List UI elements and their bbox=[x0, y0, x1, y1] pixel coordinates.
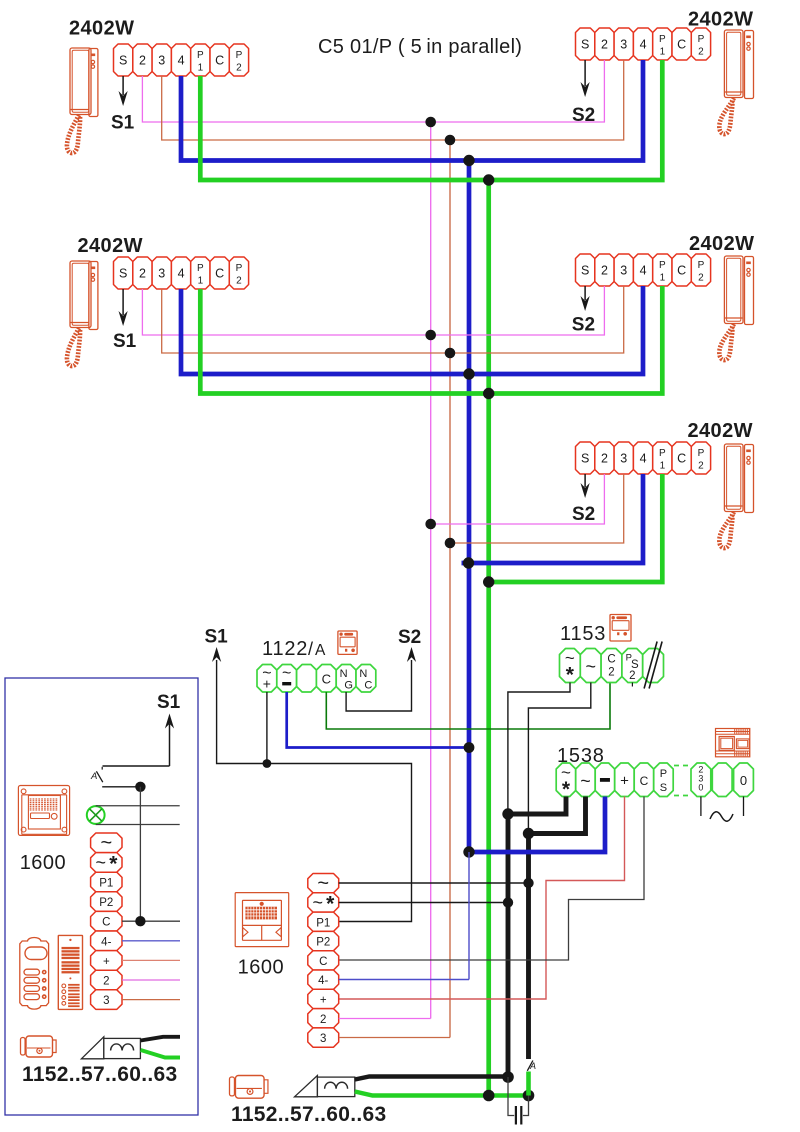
svg-text:~: ~ bbox=[580, 771, 591, 791]
svg-text:~: ~ bbox=[317, 872, 329, 894]
svg-text:2: 2 bbox=[139, 267, 146, 281]
svg-text:~: ~ bbox=[100, 832, 112, 854]
svg-text:P1: P1 bbox=[99, 878, 113, 890]
svg-text:S: S bbox=[119, 267, 127, 281]
svg-text:N: N bbox=[359, 668, 367, 680]
svg-text:G: G bbox=[344, 680, 353, 692]
svg-text:2: 2 bbox=[236, 276, 242, 287]
svg-text:4-: 4- bbox=[318, 975, 328, 987]
svg-text:3: 3 bbox=[620, 264, 627, 278]
svg-text:2402W: 2402W bbox=[78, 235, 143, 257]
svg-text:1: 1 bbox=[660, 461, 666, 472]
svg-text:S: S bbox=[119, 54, 127, 68]
svg-text:C: C bbox=[102, 917, 110, 929]
svg-text:C: C bbox=[677, 264, 686, 278]
svg-text:P: P bbox=[197, 263, 204, 274]
svg-text:P: P bbox=[698, 448, 705, 459]
svg-text:P: P bbox=[659, 34, 666, 45]
svg-text:4-: 4- bbox=[101, 936, 111, 948]
svg-text:4: 4 bbox=[178, 267, 185, 281]
svg-text:1152..57..60..63: 1152..57..60..63 bbox=[22, 1063, 177, 1086]
svg-text:S1: S1 bbox=[205, 627, 229, 648]
svg-text:+: + bbox=[620, 773, 629, 790]
svg-text:+: + bbox=[263, 676, 271, 692]
svg-text:S1: S1 bbox=[113, 331, 137, 352]
svg-text:4: 4 bbox=[640, 264, 647, 278]
svg-text:S: S bbox=[581, 264, 589, 278]
svg-text:P: P bbox=[236, 263, 243, 274]
svg-text:S: S bbox=[660, 782, 667, 794]
svg-text:1600: 1600 bbox=[20, 852, 66, 874]
svg-text:N: N bbox=[340, 668, 348, 680]
svg-text:~: ~ bbox=[96, 852, 107, 872]
svg-text:P1: P1 bbox=[316, 917, 330, 929]
svg-text:C: C bbox=[640, 774, 649, 788]
svg-text:/: / bbox=[308, 639, 313, 659]
svg-text:1: 1 bbox=[198, 63, 204, 74]
svg-text:+: + bbox=[320, 994, 327, 1006]
svg-text:P: P bbox=[659, 260, 666, 271]
svg-text:P: P bbox=[659, 448, 666, 459]
svg-text:2: 2 bbox=[698, 47, 704, 58]
svg-text:1: 1 bbox=[660, 273, 666, 284]
svg-text:2402W: 2402W bbox=[689, 233, 754, 255]
svg-text:~: ~ bbox=[312, 892, 323, 912]
svg-text:C: C bbox=[215, 267, 224, 281]
svg-text:S2: S2 bbox=[572, 315, 595, 336]
svg-text:2: 2 bbox=[103, 976, 109, 988]
svg-text:A: A bbox=[315, 642, 326, 659]
svg-text:S2: S2 bbox=[398, 627, 421, 648]
svg-text:3: 3 bbox=[320, 1033, 326, 1045]
svg-text:C5 01/P ( 5 in parallel): C5 01/P ( 5 in parallel) bbox=[318, 36, 522, 58]
svg-text:C: C bbox=[677, 452, 686, 466]
svg-text:C: C bbox=[215, 54, 224, 68]
svg-text:~: ~ bbox=[282, 665, 291, 682]
svg-text:1: 1 bbox=[660, 47, 666, 58]
svg-text:1153: 1153 bbox=[560, 623, 606, 645]
svg-text:2: 2 bbox=[629, 670, 635, 682]
svg-text:C: C bbox=[607, 654, 615, 666]
svg-text:P: P bbox=[197, 50, 204, 61]
svg-text:2402W: 2402W bbox=[688, 9, 753, 31]
svg-text:4: 4 bbox=[640, 452, 647, 466]
svg-text:~: ~ bbox=[585, 657, 596, 677]
svg-text:1600: 1600 bbox=[238, 957, 285, 979]
svg-text:4: 4 bbox=[640, 38, 647, 52]
svg-text:A: A bbox=[90, 771, 97, 782]
svg-text:S1: S1 bbox=[157, 692, 181, 713]
svg-text:P2: P2 bbox=[316, 937, 330, 949]
svg-text:0: 0 bbox=[740, 773, 747, 788]
svg-text:C: C bbox=[677, 38, 686, 52]
svg-text:S: S bbox=[581, 38, 589, 52]
svg-text:2: 2 bbox=[320, 1014, 326, 1026]
svg-text:2: 2 bbox=[698, 273, 704, 284]
svg-text:2: 2 bbox=[601, 38, 608, 52]
svg-text:C: C bbox=[364, 680, 372, 692]
svg-text:2402W: 2402W bbox=[69, 18, 134, 40]
svg-text:2402W: 2402W bbox=[688, 420, 753, 442]
svg-text:3: 3 bbox=[158, 267, 165, 281]
svg-text:1: 1 bbox=[198, 276, 204, 287]
svg-text:S2: S2 bbox=[572, 105, 595, 126]
svg-text:+: + bbox=[103, 956, 110, 968]
svg-text:3: 3 bbox=[620, 452, 627, 466]
svg-text:C: C bbox=[319, 956, 327, 968]
svg-text:C: C bbox=[322, 672, 331, 687]
svg-text:P: P bbox=[698, 34, 705, 45]
svg-text:P2: P2 bbox=[99, 897, 113, 909]
svg-text:0: 0 bbox=[698, 783, 703, 793]
svg-text:S2: S2 bbox=[572, 504, 595, 525]
svg-text:3: 3 bbox=[158, 54, 165, 68]
svg-text:1152..57..60..63: 1152..57..60..63 bbox=[231, 1103, 386, 1126]
svg-text:3: 3 bbox=[620, 38, 627, 52]
svg-text:S1: S1 bbox=[111, 113, 135, 134]
svg-text:2: 2 bbox=[601, 264, 608, 278]
svg-text:2: 2 bbox=[236, 63, 242, 74]
svg-text:A: A bbox=[529, 1061, 536, 1071]
svg-text:4: 4 bbox=[178, 54, 185, 68]
svg-text:2: 2 bbox=[698, 461, 704, 472]
svg-text:3: 3 bbox=[103, 995, 109, 1007]
svg-text:2: 2 bbox=[139, 54, 146, 68]
svg-text:P: P bbox=[660, 768, 667, 780]
svg-text:2: 2 bbox=[601, 452, 608, 466]
svg-text:S: S bbox=[581, 452, 589, 466]
svg-text:P: P bbox=[236, 50, 243, 61]
svg-text:2: 2 bbox=[608, 667, 614, 679]
svg-text:1122: 1122 bbox=[262, 638, 308, 660]
svg-text:P: P bbox=[698, 260, 705, 271]
